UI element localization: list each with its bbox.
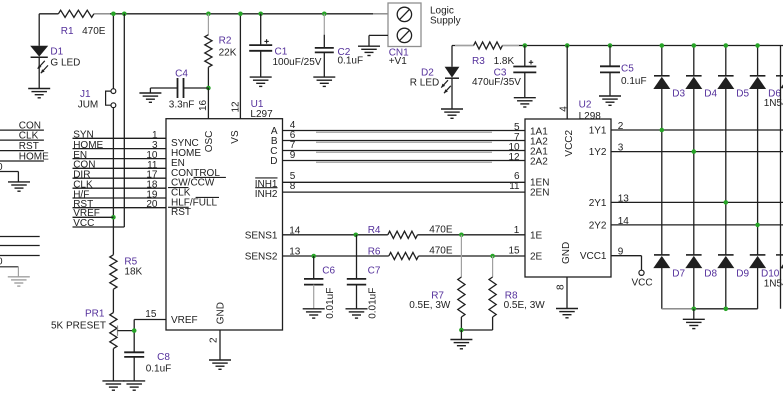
capacitor C2 0.1uF (315, 12, 363, 78)
svg-text:VS: VS (230, 130, 241, 144)
resistor R3 1.8K (472, 42, 515, 67)
wire net DIR to U1 pin 17 (73, 170, 167, 181)
wire net SYN to U1 pin 1 (73, 130, 167, 141)
svg-text:D8: D8 (704, 269, 717, 280)
svg-text:2Y2: 2Y2 (589, 220, 607, 231)
svg-text:D1: D1 (50, 47, 63, 58)
wire column D4/D8 (692, 89, 697, 255)
svg-text:C1: C1 (275, 46, 288, 57)
resistor R6 470E (368, 246, 453, 260)
svg-text:5K PRESET: 5K PRESET (51, 321, 106, 332)
svg-text:3.3nF: 3.3nF (169, 100, 195, 111)
svg-text:R3: R3 (472, 56, 485, 67)
svg-text:C4: C4 (175, 69, 188, 80)
svg-text:Logic: Logic (430, 5, 454, 16)
svg-text:0.1uF: 0.1uF (338, 56, 364, 67)
svg-text:L297: L297 (250, 109, 273, 120)
svg-text:CLK: CLK (19, 131, 39, 142)
wire motor output 2Y2 (611, 224, 783, 226)
diode labels 1N54 (764, 98, 783, 290)
svg-text:D: D (270, 156, 277, 167)
U1 left pin labels (168, 138, 226, 326)
U1 pin 16 OSC wire (198, 88, 209, 119)
svg-text:0.01uF: 0.01uF (325, 288, 336, 319)
svg-text:R LED: R LED (410, 77, 439, 88)
svg-text:11: 11 (509, 181, 520, 192)
diode D3 (top) (653, 43, 685, 99)
ground (diode rail) (683, 319, 705, 328)
wire stub (lower group 2) (0, 245, 40, 247)
svg-text:0.01uF: 0.01uF (368, 288, 379, 319)
wire INH1: U1 pin 5 to U2 pin 6 (283, 171, 526, 182)
svg-text:C7: C7 (368, 266, 381, 277)
svg-text:D3: D3 (672, 88, 685, 99)
svg-text:4: 4 (558, 106, 569, 112)
wire net H/F to U1 pin 19 (73, 189, 167, 200)
capacitor C3 470uF/35V (472, 43, 536, 97)
wire CN1 lower terminal to ground (369, 35, 388, 46)
svg-text:2E: 2E (530, 252, 543, 263)
resistor R2 22K (205, 12, 237, 91)
svg-text:PR1: PR1 (85, 308, 105, 319)
svg-text:R6: R6 (368, 247, 381, 258)
svg-text:1E: 1E (530, 231, 543, 242)
ground (C1) (250, 77, 272, 86)
node 0 / ground (group1) (0, 162, 30, 191)
ground (C7) (346, 309, 368, 318)
svg-text:OSC: OSC (204, 131, 215, 153)
U2 pin 8 GND wire/ground (556, 277, 579, 318)
svg-text:2: 2 (209, 337, 220, 343)
ground (CN1) (358, 46, 380, 55)
diode D9 (bottom) (717, 255, 749, 309)
U1 right pin labels (245, 126, 278, 263)
svg-text:C6: C6 (322, 266, 335, 277)
svg-text:9: 9 (618, 247, 624, 258)
ground (PR1) (102, 381, 124, 390)
wire stub RST (0, 141, 44, 152)
svg-text:1Y2: 1Y2 (589, 147, 607, 158)
wire R7/R8 bottoms to ground (459, 328, 493, 340)
U2 pin 4 VCC2 wire (558, 43, 569, 119)
svg-text:VCC1: VCC1 (580, 251, 607, 262)
svg-text:470E: 470E (429, 224, 453, 235)
wire phase D: U1 pin 9 to U2 pin 12 (283, 150, 526, 163)
wire stub (lower group 3) (0, 255, 40, 257)
wire U1 pin15 VREF to wiper/C8 (132, 309, 166, 352)
wire logic supply rail +V1 (39, 13, 388, 15)
connector CN1 +V1 (screw terminal) (388, 3, 461, 67)
ground (C5) (599, 96, 621, 105)
svg-text:22K: 22K (219, 47, 237, 58)
svg-text:D4: D4 (704, 88, 717, 99)
svg-text:0: 0 (0, 256, 3, 267)
svg-text:13: 13 (289, 247, 301, 258)
wire net RST to U1 pin 20 (73, 199, 167, 210)
svg-text:G LED: G LED (50, 58, 80, 69)
wire motor output 1Y1 (611, 129, 783, 131)
wire motor output 2Y1 (611, 201, 783, 203)
capacitor C1 100uF/25V (249, 12, 322, 78)
resistor R1 470E (58, 10, 105, 37)
ground (R7/R8) (450, 340, 472, 349)
svg-text:2EN: 2EN (530, 188, 549, 199)
wire net CLK to U1 pin 18 (73, 180, 167, 191)
svg-text:9: 9 (290, 150, 296, 161)
svg-text:Supply: Supply (430, 16, 461, 27)
junction dots on rail (111, 12, 127, 17)
capacitor C4 3.3nF (150, 69, 208, 111)
capacitor C7 0.01uF (347, 235, 381, 319)
svg-text:0.5E, 3W: 0.5E, 3W (504, 300, 546, 311)
wire diode bottom rail (662, 307, 758, 320)
svg-text:100uF/25V: 100uF/25V (273, 57, 322, 68)
svg-text:GND: GND (216, 302, 227, 324)
wire 5th column (clipped at edge) (776, 46, 783, 309)
svg-text:D9: D9 (736, 269, 749, 280)
svg-text:0.5E, 3W: 0.5E, 3W (409, 300, 451, 311)
svg-text:15: 15 (508, 245, 520, 256)
node 0 / ground (group2, gray) (0, 256, 30, 286)
svg-text:2A2: 2A2 (530, 157, 548, 168)
svg-text:15: 15 (145, 309, 157, 320)
capacitor C8 0.1uF (124, 352, 171, 381)
svg-text:RST: RST (171, 207, 191, 218)
U2 right pin numbers (618, 121, 630, 227)
U1 rotated pin names OSC VS GND (204, 130, 241, 324)
svg-text:8: 8 (556, 284, 567, 290)
diode D8 (bottom) (685, 255, 717, 309)
preset PR1 5K (51, 308, 134, 381)
svg-text:D7: D7 (672, 269, 685, 280)
svg-text:INH2: INH2 (255, 189, 278, 200)
wire stub (lower group 1) (0, 236, 40, 238)
svg-text:470uF/35V: 470uF/35V (472, 77, 521, 88)
svg-text:C8: C8 (157, 352, 170, 363)
svg-text:SENS2: SENS2 (245, 252, 278, 263)
ground (C2) (313, 77, 335, 86)
svg-text:VCC: VCC (73, 218, 94, 229)
LED D2 R LED (410, 46, 460, 110)
svg-text:GND: GND (561, 242, 572, 264)
svg-text:470E: 470E (82, 26, 106, 37)
wire net CON to U1 pin 11 (73, 160, 167, 171)
svg-text:VREF: VREF (171, 315, 198, 326)
svg-text:JUM: JUM (78, 100, 99, 111)
svg-text:HOME: HOME (19, 151, 49, 162)
svg-text:+V1: +V1 (389, 56, 408, 67)
svg-text:0.1uF: 0.1uF (146, 363, 172, 374)
driver U2 L298 box (525, 100, 611, 278)
ground (C8) (123, 381, 145, 390)
svg-text:C5: C5 (621, 64, 634, 75)
svg-text:L298: L298 (579, 111, 602, 122)
wire phase B: U1 pin 6 to U2 pin 7 (283, 130, 526, 143)
diode D5 (top) (717, 43, 749, 99)
wire net VREF (73, 208, 114, 219)
svg-text:16: 16 (198, 99, 209, 111)
svg-text:12: 12 (508, 152, 520, 163)
diode D6 (top) (749, 43, 781, 99)
svg-text:VCC2: VCC2 (564, 129, 575, 156)
svg-text:R4: R4 (368, 225, 381, 236)
capacitor C6 0.01uF (304, 256, 336, 319)
wire SENS1 net: U1 pin14 to U2 pin1 (283, 225, 526, 237)
ground (C3) (514, 98, 536, 107)
svg-text:U2: U2 (579, 100, 592, 111)
svg-text:SENS1: SENS1 (245, 230, 278, 241)
wire phase A: U1 pin 4 to U2 pin 5 (283, 120, 526, 133)
node VCC terminal (U2 pin 9 VCC1) (611, 247, 653, 289)
svg-text:1Y1: 1Y1 (589, 126, 607, 137)
svg-text:1.8K: 1.8K (494, 56, 515, 67)
svg-text:20: 20 (146, 199, 158, 210)
wire stub CLK (0, 131, 44, 142)
svg-text:12: 12 (230, 101, 241, 113)
wire column D5/D9 (724, 89, 729, 255)
resistor R8 0.5E 3W (489, 256, 545, 330)
diode D10 (bottom) (749, 255, 780, 309)
node VCC label (73, 218, 94, 229)
U1 pin 2 GND wire/ground (209, 330, 232, 369)
svg-text:14: 14 (289, 226, 301, 237)
capacitor C5 0.1uF (600, 43, 647, 96)
svg-text:J1: J1 (80, 89, 91, 100)
svg-text:RST: RST (19, 141, 39, 152)
jumper J1 JUM (78, 14, 116, 111)
wire stub CON (0, 121, 44, 132)
wire VCC drop to VCC net (73, 14, 125, 227)
LED D1 G LED (30, 14, 80, 89)
svg-text:18K: 18K (124, 267, 142, 278)
resistor R5 18K (110, 255, 143, 313)
wire net HOME to U1 pin 3 (73, 140, 167, 151)
svg-text:D5: D5 (736, 88, 749, 99)
svg-text:R1: R1 (61, 26, 74, 37)
resistor R4 470E (368, 224, 453, 238)
wire INH2: U1 pin 8 to U2 pin 11 (283, 181, 526, 192)
resistor R7 0.5E 3W (409, 235, 465, 330)
wire column D3/D7 (660, 89, 665, 255)
wire SENS2 net: U1 pin13 to U2 pin15 (283, 245, 526, 258)
U1 pin 12 VS wire (230, 12, 242, 119)
diode D4 (top) (685, 43, 717, 99)
wire J1 to R5 / VREF tap (111, 108, 116, 255)
U2 inside labels (530, 126, 607, 265)
ground (D2) (441, 109, 463, 118)
op-amp U1 L297 box (166, 99, 283, 330)
ground (D1) (28, 89, 50, 98)
wire stub HOME (0, 151, 49, 162)
svg-text:VCC: VCC (632, 278, 653, 289)
svg-text:R2: R2 (219, 36, 232, 47)
svg-text:470E: 470E (429, 246, 453, 257)
wire motor output 1Y2 (611, 151, 783, 153)
svg-text:1: 1 (514, 225, 520, 236)
wire column D6/D10 (755, 89, 760, 255)
wire phase C: U1 pin 7 to U2 pin 10 (283, 140, 526, 153)
ground (C4) (139, 93, 161, 102)
diode D7 (bottom) (653, 255, 685, 309)
ground (C6) (303, 309, 325, 318)
wire net EN to U1 pin 10 (73, 150, 167, 161)
svg-text:8: 8 (290, 181, 296, 192)
svg-text:2Y1: 2Y1 (589, 198, 607, 209)
svg-text:0.1uF: 0.1uF (621, 76, 647, 87)
wire motor supply rail VS (452, 45, 783, 47)
